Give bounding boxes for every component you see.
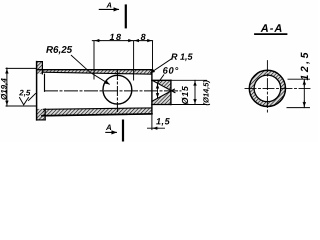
section arrow A bottom — [106, 131, 117, 133]
flange top right face — [41, 62, 43, 74]
body top outer line — [37, 69, 152, 71]
12,5 extension top — [288, 78, 310, 80]
hatched flange top section — [37, 62, 43, 74]
flange bottom edge — [37, 119, 46, 121]
outer circle — [249, 70, 285, 106]
cone bottom edge — [152, 89, 175, 101]
bore bottom line — [44, 108, 152, 109]
flange bottom right face — [44, 109, 46, 120]
section bar A bottom — [122, 121, 124, 141]
shoulder face — [151, 70, 153, 114]
svg-text:1,5: 1,5 — [156, 116, 171, 126]
tip top outer line — [152, 79, 171, 81]
section title underline — [255, 33, 287, 35]
section arrow A top — [99, 8, 118, 10]
extension line 8 right — [152, 42, 154, 70]
leader R6,25 — [71, 55, 109, 84]
dia19,4 dimension line — [6, 68, 8, 106]
section bar A top — [125, 6, 127, 28]
svg-text:R6,25: R6,25 — [46, 45, 73, 56]
leader 60 — [158, 75, 164, 83]
dia15 extension bottom — [172, 104, 207, 106]
dia19,4 extension top — [6, 67, 37, 69]
dia19,4 extension bottom — [6, 105, 37, 107]
step edge at bore left — [44, 74, 46, 91]
leader R1,5 — [151, 59, 172, 73]
svg-text:A: A — [105, 1, 111, 10]
dia15 extension top — [172, 79, 207, 81]
svg-text:8: 8 — [141, 32, 146, 42]
tip end face — [170, 80, 172, 104]
axis centerline — [45, 90, 182, 92]
tip bottom outer line — [152, 104, 171, 106]
hatched flange bottom section — [37, 109, 46, 120]
dia15 dimension line — [194, 80, 196, 104]
svg-text:A: A — [105, 123, 112, 132]
svg-text:2,5: 2,5 — [18, 88, 31, 97]
hatched bottom wall — [42, 108, 152, 116]
flange top edge — [37, 61, 43, 63]
hole vertical centerline — [116, 71, 118, 113]
svg-text:A-A: A-A — [260, 23, 284, 35]
svg-text:12,5: 12,5 — [299, 50, 311, 80]
body bottom outer line — [42, 114, 152, 116]
extension line 18 left — [93, 42, 95, 80]
horizontal centerline — [245, 87, 311, 89]
12,5 extension bottom — [287, 107, 310, 109]
dim line 18 / 8 — [92, 40, 152, 42]
hatched ring — [249, 70, 285, 106]
12,5 dimension line — [303, 79, 305, 107]
hatched top wall — [42, 70, 151, 75]
svg-text:(Ø14,5): (Ø14,5) — [202, 80, 211, 106]
flange left face — [36, 62, 38, 120]
side hole circle — [103, 75, 132, 104]
leader 2,5 arrow — [20, 98, 29, 105]
bore top line — [42, 72, 151, 74]
svg-text:Ø19,4: Ø19,4 — [0, 78, 8, 100]
inner circle — [254, 75, 281, 102]
1,5 extension left — [151, 115, 153, 129]
cone top edge — [152, 80, 175, 92]
1,5 dimension line — [148, 127, 165, 129]
vertical centerline — [266, 61, 268, 114]
svg-text:Ø15: Ø15 — [180, 85, 190, 104]
60 degree dimension line — [157, 84, 159, 98]
hatched tip below cone — [152, 91, 171, 104]
svg-text:R 1,5: R 1,5 — [171, 52, 194, 62]
svg-text:18: 18 — [109, 32, 122, 42]
svg-text:60°: 60° — [163, 66, 179, 76]
extension line 18/8 middle — [133, 42, 135, 81]
hatched tip above cone — [152, 80, 171, 90]
